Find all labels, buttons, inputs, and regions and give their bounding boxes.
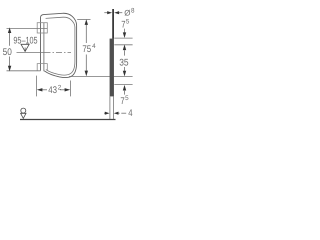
svg-text:7: 7: [120, 96, 124, 107]
svg-text:43: 43: [48, 85, 57, 96]
svg-text:8: 8: [131, 8, 135, 15]
svg-text:5: 5: [126, 19, 130, 26]
svg-text:75: 75: [82, 44, 91, 55]
svg-text:5: 5: [125, 95, 129, 102]
svg-text:4: 4: [128, 108, 133, 119]
svg-text:4: 4: [92, 43, 96, 50]
svg-text:95–105: 95–105: [13, 35, 37, 46]
svg-text:35: 35: [119, 58, 128, 69]
svg-text:50: 50: [3, 47, 12, 58]
svg-text:2: 2: [58, 85, 62, 92]
svg-text:Ø: Ø: [124, 8, 130, 17]
